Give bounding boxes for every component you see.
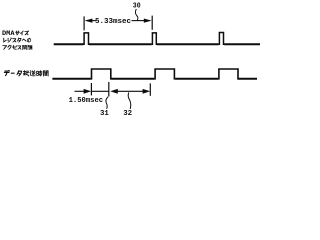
wire: bottom waveform baseline segment 3 bbox=[175, 78, 218, 80]
leader squiggle from 31 to falling-edge tick bbox=[106, 97, 108, 109]
svg-text:31: 31 bbox=[100, 110, 109, 118]
wire: top waveform baseline segment 4 bbox=[224, 43, 260, 45]
svg-text:1.50msec: 1.50msec bbox=[69, 97, 104, 105]
pulse P2 of top waveform bbox=[152, 33, 156, 45]
pulse P1 of bottom waveform bbox=[92, 69, 111, 80]
leader squiggle from 32 to gap dimension line bbox=[128, 92, 131, 109]
extension tick below P2 rising edge bbox=[149, 83, 151, 95]
extension tick below P1 rising edge bbox=[90, 83, 92, 95]
svg-text:30: 30 bbox=[133, 3, 141, 11]
extension tick at P2 rising edge bbox=[151, 16, 153, 30]
label line 1: katakana sa-i-zu bbox=[16, 31, 20, 35]
extension tick at P1 rising edge bbox=[83, 16, 85, 30]
wire: bottom waveform baseline segment 4 bbox=[238, 78, 257, 80]
left arrowhead of 5.33msec dimension bbox=[85, 19, 93, 23]
dimension line between ticks bbox=[91, 90, 109, 92]
shaft left of 5.33msec text bbox=[92, 20, 96, 22]
label: de-(dash)-ta ten-sou-ji-kan bbox=[4, 70, 9, 75]
wire: top waveform baseline segment 2 bbox=[89, 43, 152, 45]
right-pointing arrowhead at P1 rising tick bbox=[84, 89, 92, 94]
wire: top waveform baseline segment 1 bbox=[54, 43, 84, 45]
right arrowhead of 5.33msec dimension bbox=[144, 19, 152, 23]
svg-text:DMA: DMA bbox=[2, 30, 15, 37]
wire: top waveform baseline segment 3 bbox=[157, 43, 219, 45]
left-pointing arrowhead at P1 falling tick bbox=[110, 89, 118, 94]
wire: bottom waveform baseline segment 1 bbox=[52, 78, 90, 80]
extension tick below P1 falling edge bbox=[108, 82, 110, 96]
right-pointing arrowhead at P2 rising tick bbox=[143, 89, 151, 94]
wire: bottom waveform baseline segment 2 bbox=[112, 78, 155, 80]
svg-text:5.33msec: 5.33msec bbox=[95, 18, 131, 26]
pulse P1 of top waveform bbox=[84, 33, 88, 45]
label line 3: a-ku-se-su kan-kaku bbox=[3, 46, 7, 50]
label line 2: katakana re-ji-su-ta-he-no bbox=[4, 38, 7, 42]
pulse P2 of bottom waveform bbox=[155, 69, 174, 80]
pulse P3 of top waveform bbox=[219, 33, 223, 46]
pulse P3 of bottom waveform bbox=[219, 69, 238, 80]
shaft of gap dimension bbox=[117, 90, 144, 92]
leader squiggle from 30 to dimension line bbox=[135, 9, 137, 20]
svg-text:32: 32 bbox=[123, 110, 132, 118]
shaft right of 5.33msec text bbox=[132, 20, 146, 22]
shaft of left outside arrow bbox=[75, 90, 86, 92]
